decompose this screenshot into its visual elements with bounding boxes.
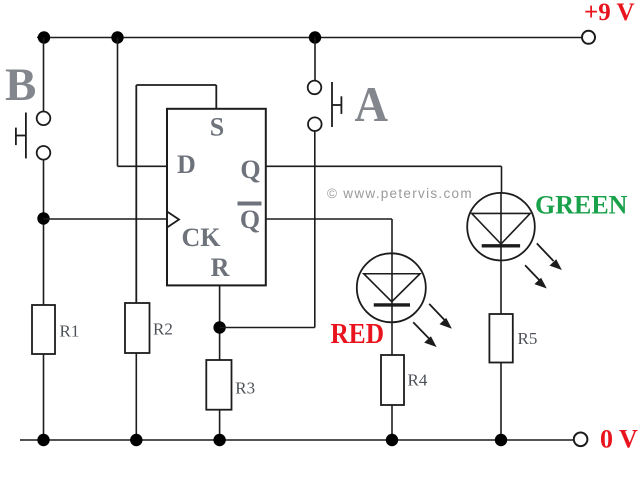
switch A actuator tick [340, 96, 342, 114]
wire Q output [266, 165, 502, 167]
LED D1 wire through [391, 254, 393, 355]
svg-text:R5: R5 [518, 329, 538, 348]
clock input triangle [167, 212, 179, 228]
wire Q-bar down to red LED [391, 219, 393, 254]
wire R2 bottom [135, 353, 137, 440]
node junction top (A branch) [309, 31, 321, 43]
svg-text:+9 V: +9 V [584, 0, 635, 26]
svg-text:R4: R4 [408, 371, 428, 390]
svg-text:GREEN: GREEN [535, 190, 628, 219]
node junction top-left (B branch) [38, 31, 50, 43]
LED D1 light arrow 1 [429, 304, 452, 329]
wire top +9V rail [37, 37, 582, 39]
svg-text:R: R [211, 253, 230, 282]
svg-text:D: D [177, 150, 196, 179]
wire S loop vertical from S pin [215, 85, 217, 109]
wire S loop horizontal [136, 84, 216, 86]
wire R1 bottom [43, 354, 45, 440]
switch A bottom contact [308, 117, 322, 131]
wire bottom 0V rail [20, 439, 574, 441]
wire Q-bar output [266, 218, 392, 220]
svg-text:A: A [355, 76, 389, 132]
wire R pin down [219, 285, 221, 360]
svg-text:Q: Q [240, 205, 260, 234]
resistor R2 [125, 303, 150, 353]
svg-text:R3: R3 [235, 379, 255, 398]
LED D2 light arrow 2 [525, 265, 547, 288]
LED D1 cathode bar [374, 303, 410, 306]
svg-text:0 V: 0 V [600, 425, 638, 454]
resistor R4 [381, 355, 404, 405]
node junction bottom R2 [130, 434, 142, 446]
wire R5 bottom [500, 363, 502, 441]
switch B actuator bar [25, 113, 27, 159]
pin label Q-bar overline [238, 202, 262, 206]
wire S loop down to R2 [135, 85, 137, 303]
switch A actuator bar [331, 82, 333, 127]
wire R4 bottom [391, 405, 393, 440]
LED D2 triangle [472, 213, 531, 244]
LED D2 green circle [467, 193, 535, 261]
op-amp U1 D flip-flop box [167, 109, 266, 286]
svg-text:Q: Q [240, 155, 260, 184]
wire R node to A branch [220, 327, 315, 329]
wire B bottom [43, 160, 45, 305]
LED D2 light arrow 1 [537, 243, 562, 270]
node junction bottom R4 [386, 434, 398, 446]
wire CK input [44, 218, 168, 220]
resistor R5 [489, 314, 512, 363]
svg-text:RED: RED [331, 318, 385, 350]
resistor R3 [206, 360, 231, 410]
LED D1 light arrow 2 [413, 322, 436, 347]
LED D2 cathode bar [482, 244, 520, 247]
wire Q down to green LED [501, 166, 503, 193]
wire A top [314, 38, 316, 81]
svg-text:R2: R2 [153, 320, 173, 339]
switch B bottom contact [37, 146, 51, 160]
switch B actuator tick [15, 128, 17, 146]
LED D1 red circle [357, 253, 426, 322]
LED D1 triangle [364, 274, 420, 302]
node junction bottom R3 [213, 434, 225, 446]
LED D2 wire through [500, 193, 502, 314]
wire D branch vertical [117, 38, 119, 167]
switch A actuator stub [332, 104, 341, 106]
node junction R pin [213, 321, 225, 333]
wire R3 bottom [219, 410, 221, 440]
node junction top (D branch) [111, 31, 123, 43]
terminal +9V open circle [582, 31, 595, 44]
switch A top contact [308, 81, 322, 95]
wire B top [43, 38, 45, 112]
wire D branch horizontal [118, 165, 168, 167]
node junction B / CK [37, 212, 49, 224]
switch B top contact [37, 112, 51, 126]
node junction bottom R1 [37, 434, 49, 446]
svg-text:CK: CK [182, 223, 222, 252]
resistor R1 [32, 305, 55, 354]
wire A bottom down to R node [314, 131, 316, 327]
svg-text:B: B [5, 59, 36, 111]
svg-text:R1: R1 [60, 322, 80, 341]
terminal 0V open circle [574, 433, 588, 447]
node junction bottom R5 [495, 434, 507, 446]
svg-text:© www.petervis.com: © www.petervis.com [327, 186, 473, 201]
switch B actuator stub [16, 135, 26, 137]
svg-text:S: S [210, 113, 224, 142]
